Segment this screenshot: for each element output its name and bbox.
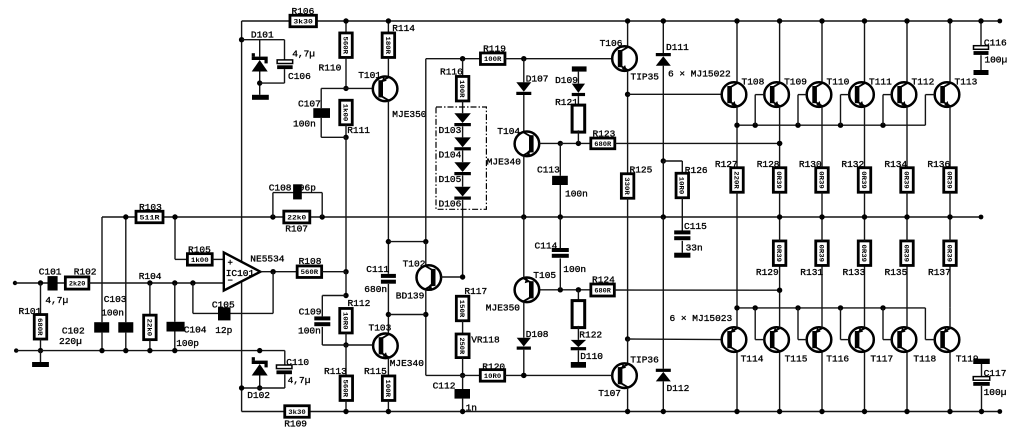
svg-text:T114: T114 [741,353,764,364]
svg-text:560R: 560R [301,269,319,277]
svg-text:C113: C113 [537,165,560,176]
svg-text:C108: C108 [269,182,292,193]
svg-text:C116: C116 [984,37,1007,48]
svg-text:R114: R114 [392,23,415,34]
svg-text:220µ: 220µ [59,336,82,347]
svg-text:TIP36: TIP36 [630,355,659,366]
svg-text:100n: 100n [101,308,124,319]
svg-text:10R0: 10R0 [484,373,501,381]
svg-text:4,7µ: 4,7µ [288,375,311,386]
svg-text:R129: R129 [756,267,779,278]
svg-text:C111: C111 [366,264,389,275]
svg-text:R112: R112 [348,298,371,309]
svg-text:R136: R136 [927,159,950,170]
svg-text:R111: R111 [347,125,370,136]
svg-text:0R39: 0R39 [774,171,782,189]
svg-text:3k30: 3k30 [293,18,313,26]
svg-text:VR118: VR118 [471,334,500,345]
svg-text:R107: R107 [285,224,308,235]
svg-text:0R39: 0R39 [859,171,867,189]
svg-text:33n: 33n [686,242,703,253]
svg-text:250R: 250R [457,338,465,356]
svg-text:0R39: 0R39 [901,171,909,189]
svg-text:MJE350: MJE350 [392,109,427,120]
svg-text:22k0: 22k0 [144,319,152,337]
svg-text:D107: D107 [526,74,549,85]
svg-text:12p: 12p [215,325,232,336]
svg-text:R105: R105 [188,245,211,256]
svg-text:C103: C103 [104,294,127,305]
svg-text:T107: T107 [598,388,621,399]
svg-text:R120: R120 [482,361,505,372]
svg-text:T109: T109 [784,76,807,87]
svg-text:R104: R104 [139,271,162,282]
svg-text:D105: D105 [439,174,462,185]
svg-text:R106: R106 [292,6,315,17]
svg-text:D108: D108 [526,329,549,340]
svg-text:T110: T110 [827,76,850,87]
svg-text:R110: R110 [319,63,342,74]
svg-text:C104: C104 [184,325,207,336]
svg-text:100n: 100n [565,189,588,200]
svg-text:T115: T115 [785,353,808,364]
svg-text:2k20: 2k20 [69,280,86,288]
svg-text:C109: C109 [299,307,322,318]
svg-text:10R0: 10R0 [677,177,685,195]
svg-text:560R: 560R [340,36,348,54]
svg-text:680R: 680R [594,141,612,149]
svg-text:R123: R123 [593,128,616,139]
svg-text:R131: R131 [800,267,823,278]
svg-text:IC101: IC101 [226,268,255,279]
svg-text:0R39: 0R39 [859,244,867,262]
svg-text:D102: D102 [247,390,270,401]
svg-text:560R: 560R [341,379,349,397]
svg-text:220R: 220R [731,171,739,189]
svg-text:T117: T117 [870,353,893,364]
svg-text:T106: T106 [600,38,623,49]
svg-text:96p: 96p [299,182,316,193]
svg-text:0R39: 0R39 [944,171,952,189]
svg-text:C114: C114 [535,240,558,251]
svg-text:T118: T118 [913,353,936,364]
svg-text:D104: D104 [439,150,462,161]
svg-text:180R: 180R [383,36,391,54]
svg-text:100n: 100n [293,119,316,130]
svg-text:1k00: 1k00 [340,104,348,122]
svg-text:R117: R117 [464,286,487,297]
svg-text:R130: R130 [799,159,822,170]
svg-text:1n: 1n [466,403,477,414]
svg-text:R101: R101 [19,306,42,317]
svg-text:T111: T111 [869,76,892,87]
svg-text:C115: C115 [684,221,707,232]
svg-text:D103: D103 [439,125,462,136]
svg-text:100R: 100R [383,379,391,397]
svg-text:R102: R102 [74,267,97,278]
svg-text:R133: R133 [843,267,866,278]
svg-text:100n: 100n [298,326,321,337]
svg-text:6 × MJ15022: 6 × MJ15022 [668,69,731,80]
svg-text:R122: R122 [579,330,602,341]
svg-text:0R39: 0R39 [816,171,824,189]
svg-text:C112: C112 [433,380,456,391]
svg-text:22k0: 22k0 [287,214,306,222]
svg-text:R113: R113 [324,366,347,377]
svg-text:R115: R115 [364,366,387,377]
svg-text:150R: 150R [457,300,465,318]
svg-text:511R: 511R [140,214,161,222]
svg-text:T116: T116 [826,353,849,364]
svg-text:D110: D110 [580,351,603,362]
svg-text:T113: T113 [955,76,978,87]
svg-text:4,7µ: 4,7µ [292,48,315,59]
svg-text:100R: 100R [484,56,502,64]
svg-text:C106: C106 [288,71,311,82]
svg-text:680R: 680R [35,318,43,336]
svg-text:R126: R126 [685,165,708,176]
svg-text:100R: 100R [457,80,465,98]
svg-text:R135: R135 [885,267,908,278]
svg-text:T102: T102 [403,258,426,269]
svg-text:T103: T103 [369,323,392,334]
svg-text:100p: 100p [176,338,199,349]
svg-text:680n: 680n [364,284,387,295]
svg-text:0R39: 0R39 [901,244,909,262]
svg-text:D106: D106 [439,199,462,210]
svg-text:C110: C110 [286,357,309,368]
svg-text:C101: C101 [39,267,62,278]
svg-text:R124: R124 [592,274,615,285]
svg-text:R103: R103 [139,202,162,213]
svg-text:R137: R137 [928,267,951,278]
svg-text:TIP35: TIP35 [631,72,660,83]
svg-text:BD139: BD139 [396,290,425,301]
svg-text:T108: T108 [742,76,765,87]
svg-text:3k30: 3k30 [288,409,306,417]
svg-text:MJE350: MJE350 [486,303,521,314]
svg-text:NE5534: NE5534 [250,254,285,265]
svg-text:C117: C117 [984,368,1007,379]
svg-text:680R: 680R [594,287,611,295]
svg-text:C105: C105 [212,300,235,311]
svg-text:100µ: 100µ [984,54,1007,65]
svg-text:330R: 330R [622,177,630,195]
svg-text:10R0: 10R0 [340,312,348,330]
svg-text:1k00: 1k00 [191,257,209,265]
svg-text:0R39: 0R39 [816,244,824,262]
svg-text:R125: R125 [630,165,653,176]
svg-text:R128: R128 [757,159,780,170]
svg-text:R132: R132 [841,159,864,170]
svg-text:R121: R121 [555,97,578,108]
svg-text:D109: D109 [555,75,578,86]
svg-text:R119: R119 [483,44,506,55]
svg-text:100n: 100n [563,264,586,275]
svg-text:4,7µ: 4,7µ [45,295,68,306]
svg-text:C107: C107 [298,99,321,110]
svg-text:0R39: 0R39 [774,244,782,262]
svg-text:MJE340: MJE340 [487,157,522,168]
svg-text:D112: D112 [667,383,690,394]
svg-text:T105: T105 [533,270,556,281]
svg-text:100µ: 100µ [984,387,1007,398]
svg-text:6 × MJ15023: 6 × MJ15023 [670,313,733,324]
svg-text:MJE340: MJE340 [390,358,425,369]
svg-text:R127: R127 [715,159,738,170]
svg-text:R109: R109 [284,419,307,430]
svg-text:0R39: 0R39 [944,244,952,262]
svg-text:R108: R108 [299,256,322,267]
svg-text:R134: R134 [884,159,907,170]
svg-text:D111: D111 [666,42,689,53]
svg-text:D101: D101 [251,29,274,40]
svg-text:T112: T112 [912,76,935,87]
